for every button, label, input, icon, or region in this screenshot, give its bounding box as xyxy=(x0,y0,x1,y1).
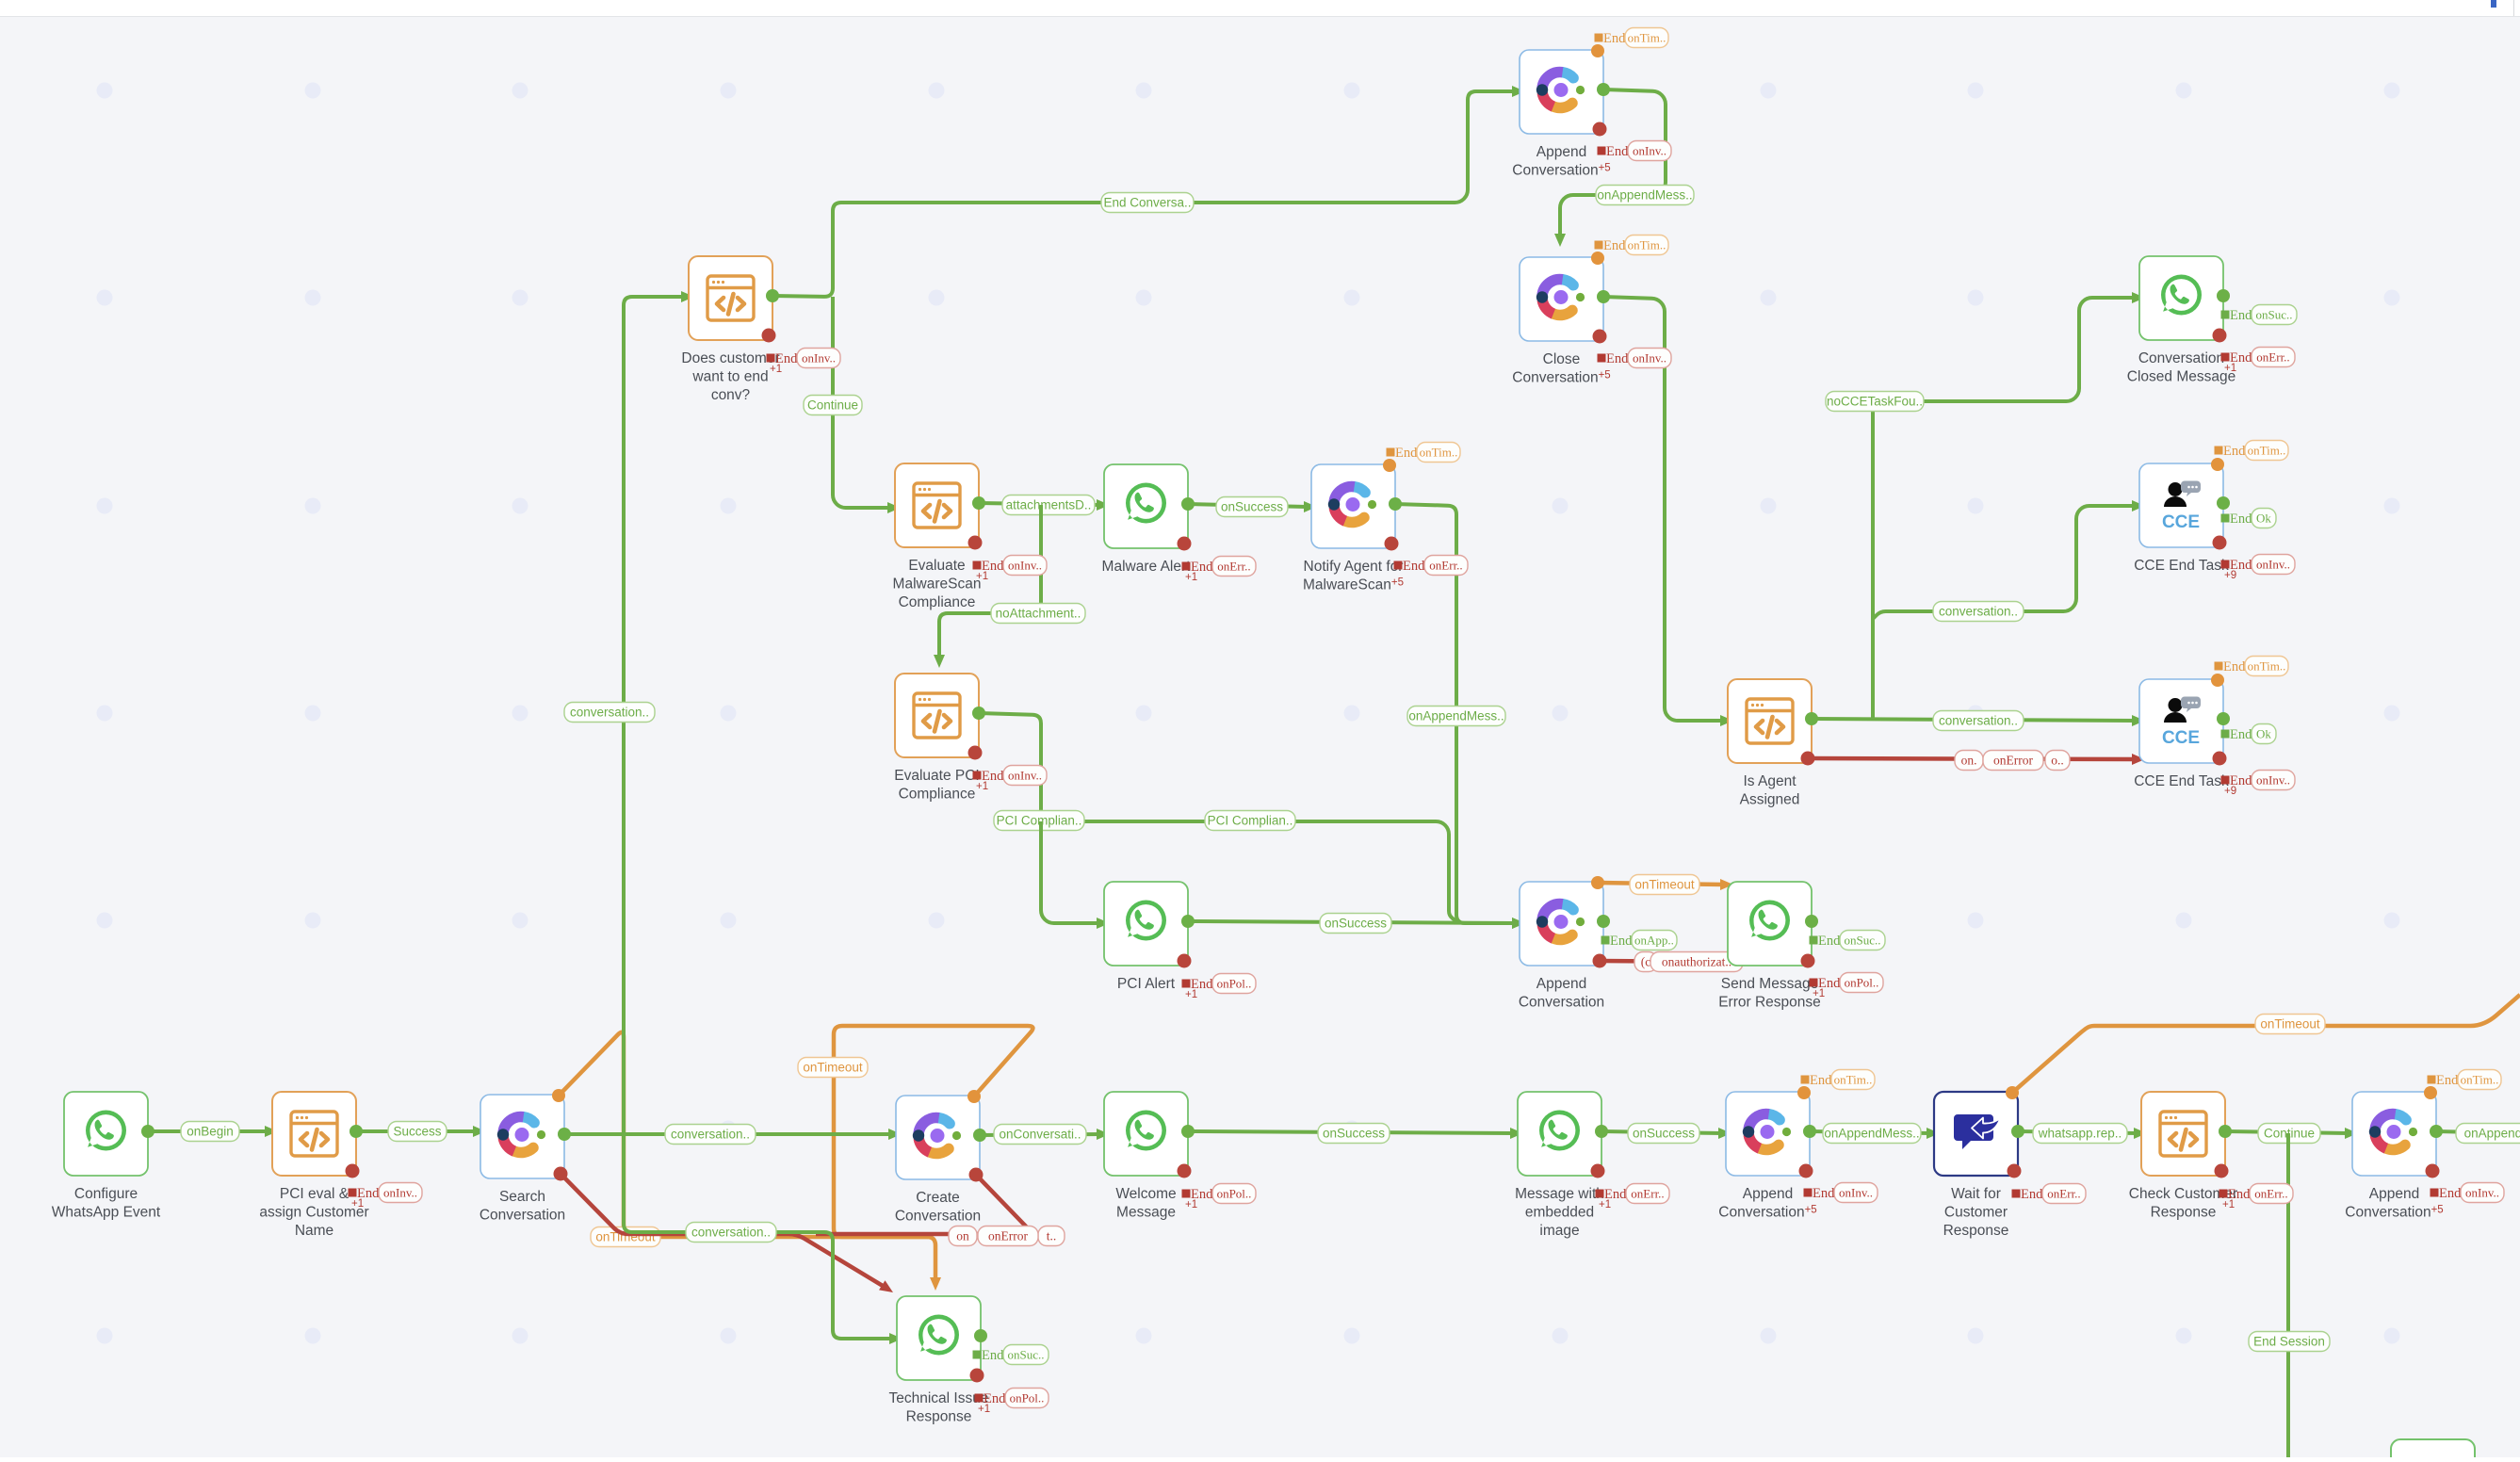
svg-text:Create: Create xyxy=(916,1190,960,1206)
node Wait for Customer Response xyxy=(1934,1092,2018,1176)
svg-text:onSuc..: onSuc.. xyxy=(2256,307,2293,321)
wire onAppendMessage out of last Append Conversation xyxy=(2436,1131,2520,1133)
svg-text:onInv..: onInv.. xyxy=(2256,772,2290,787)
wire onTimeout: Append Conversation to Send Message Error Response xyxy=(1598,883,1724,885)
label End onErr for Wait for Customer Response xyxy=(2012,1190,2021,1198)
label End onInv for Close Conversation xyxy=(1598,354,1606,363)
svg-text:onTim..: onTim.. xyxy=(2248,658,2286,673)
svg-text:+1: +1 xyxy=(976,781,988,792)
svg-text:conversation..: conversation.. xyxy=(671,1128,750,1142)
svg-text:Technical Issue: Technical Issue xyxy=(889,1390,989,1406)
node Append Conversation last xyxy=(2352,1092,2436,1176)
svg-text:PCI Alert: PCI Alert xyxy=(1117,976,1176,992)
svg-text:Message with: Message with xyxy=(1515,1186,1604,1202)
svg-text:Close: Close xyxy=(1543,351,1581,367)
svg-text:onSuc..: onSuc.. xyxy=(1845,933,1881,947)
svg-text:onAppendMess..: onAppendMess.. xyxy=(1824,1127,1919,1141)
node Create Conversation xyxy=(896,1096,980,1179)
svg-text:Is Agent: Is Agent xyxy=(1743,773,1797,789)
svg-text:Conversation+5: Conversation+5 xyxy=(1512,370,1610,386)
wire conversation: Search Conversation to Create Conversation xyxy=(564,1132,892,1136)
svg-text:End: End xyxy=(982,1348,1004,1363)
svg-text:onTim..: onTim.. xyxy=(1628,237,1666,252)
svg-text:onPol..: onPol.. xyxy=(1010,1390,1045,1405)
node PCI eval & assign Customer Name xyxy=(272,1092,356,1176)
label End onPol for Welcome Message xyxy=(1182,1190,1191,1198)
node Search Conversation xyxy=(480,1095,564,1178)
svg-text:onTim..: onTim.. xyxy=(1628,30,1666,44)
wire noCCETaskFound: Is Agent Assigned to Conversation Closed Message xyxy=(1873,298,2136,721)
svg-text:Ok: Ok xyxy=(2256,511,2271,525)
svg-text:End: End xyxy=(1813,1186,1835,1201)
wire onError: Search Conversation to Technical Issue Response xyxy=(561,1174,886,1288)
svg-text:conversation..: conversation.. xyxy=(691,1226,771,1240)
label End onErr for Notify Agent xyxy=(1394,561,1403,570)
svg-text:onInv..: onInv.. xyxy=(1633,143,1666,157)
svg-text:onInv..: onInv.. xyxy=(2465,1185,2499,1199)
wire onAppendMessage: Notify Agent for MalwareScan down to Append Conversation xyxy=(1395,504,1516,923)
wire onAppendMessage: Append Conversation to Wait for Customer Response xyxy=(1810,1131,1930,1133)
svg-text:+1: +1 xyxy=(1599,1199,1611,1210)
svg-text:End: End xyxy=(2223,659,2246,674)
svg-text:Search: Search xyxy=(499,1189,545,1205)
svg-text:conversation..: conversation.. xyxy=(1939,605,2018,619)
svg-text:Error Response: Error Response xyxy=(1718,995,1821,1011)
wire Success: PCI eval to Search Conversation xyxy=(356,1129,477,1133)
label End onErr for Check Customer Response xyxy=(2219,1190,2228,1198)
svg-text:onPol..: onPol.. xyxy=(1217,976,1252,990)
wire conversation: Search Conversation to Technical Issue Response xyxy=(624,1134,893,1339)
label End onInv for PCI eval xyxy=(349,1189,357,1197)
svg-text:conversation..: conversation.. xyxy=(570,706,649,720)
node Configure WhatsApp Event xyxy=(64,1092,148,1176)
label End onPol for Send Message Error Response xyxy=(1810,979,1818,987)
svg-text:onAppendM: onAppendM xyxy=(2464,1127,2520,1141)
label End Ok for CCE End Task top xyxy=(2221,514,2230,523)
wire onError: Is Agent Assigned to CCE End Task bottom xyxy=(1808,758,2136,759)
svg-text:Append: Append xyxy=(1536,976,1586,992)
svg-text:onAppendMess..: onAppendMess.. xyxy=(1597,188,1692,203)
label End onTim for Append Conversation top xyxy=(1595,34,1603,42)
label End onErr for Message with embedded image xyxy=(1596,1190,1604,1198)
svg-text:embedded: embedded xyxy=(1525,1205,1594,1221)
svg-text:Notify Agent for: Notify Agent for xyxy=(1304,559,1404,575)
svg-text:onErr..: onErr.. xyxy=(1631,1186,1664,1200)
svg-text:onErr..: onErr.. xyxy=(2254,1186,2287,1200)
svg-text:End: End xyxy=(1606,144,1629,159)
svg-text:Conversation+5: Conversation+5 xyxy=(2345,1205,2443,1221)
node Append Conversation bottom row xyxy=(1726,1092,1810,1176)
svg-text:End: End xyxy=(2230,727,2252,742)
label End Ok for CCE End Task bottom xyxy=(2221,730,2230,739)
wire onTimeout: Wait for Customer Response off right edge xyxy=(2012,995,2520,1093)
svg-text:onSuccess: onSuccess xyxy=(1323,1127,1385,1141)
svg-text:+1: +1 xyxy=(2224,363,2236,374)
node Is Agent Assigned xyxy=(1728,679,1812,763)
label End onErr for Conversation Closed Message xyxy=(2221,353,2230,362)
svg-text:onTimeout: onTimeout xyxy=(2260,1017,2320,1032)
label End onInv for Append Conversation top xyxy=(1598,147,1606,155)
node PCI Alert xyxy=(1104,882,1188,966)
svg-text:onSuc..: onSuc.. xyxy=(1008,1347,1045,1361)
svg-text:+1: +1 xyxy=(770,364,782,375)
svg-text:End: End xyxy=(1810,1073,1832,1088)
svg-text:Name: Name xyxy=(295,1223,333,1239)
svg-text:+1: +1 xyxy=(351,1198,364,1210)
svg-text:Response: Response xyxy=(2151,1205,2217,1221)
svg-text:onTim..: onTim.. xyxy=(2461,1072,2499,1086)
svg-text:onInv..: onInv.. xyxy=(2256,557,2290,571)
svg-text:onTim..: onTim.. xyxy=(2248,443,2286,457)
svg-text:+1: +1 xyxy=(1185,572,1197,583)
svg-text:onInv..: onInv.. xyxy=(383,1185,417,1199)
svg-text:onConversati..: onConversati.. xyxy=(999,1128,1081,1142)
label End onErr for Malware Alert xyxy=(1182,562,1191,571)
svg-text:PCI Complian..: PCI Complian.. xyxy=(1208,814,1293,828)
label End onTim for Notify Agent xyxy=(1387,448,1395,457)
svg-text:onInv..: onInv.. xyxy=(802,350,836,365)
svg-text:Evaluate: Evaluate xyxy=(908,558,965,574)
svg-text:noAttachment..: noAttachment.. xyxy=(996,607,1081,621)
node Evaluate PCI Compliance xyxy=(895,674,979,757)
node CCE End Task top xyxy=(2139,463,2223,547)
svg-text:Customer: Customer xyxy=(1944,1205,2008,1221)
svg-text:onSuccess: onSuccess xyxy=(1633,1127,1695,1141)
wire: Close Conversation to Is Agent Assigned xyxy=(1603,297,1724,721)
wire conversation: Is Agent Assigned to CCE End Task top xyxy=(1873,506,2136,619)
node Technical Issue Response xyxy=(897,1296,981,1380)
label End onTim for CCE End Task bottom xyxy=(2215,662,2223,671)
label End onInv for Evaluate MalwareScan xyxy=(973,561,982,570)
svg-text:attachmentsD..: attachmentsD.. xyxy=(1006,498,1092,512)
wire onSuccess: PCI Alert to Append Conversation xyxy=(1188,921,1516,923)
wire onSuccess: Malware Alert to Notify Agent for MalwareScan xyxy=(1188,504,1308,507)
svg-text:+9: +9 xyxy=(2224,786,2236,797)
svg-text:conversation..: conversation.. xyxy=(1939,714,2018,728)
svg-text:onError: onError xyxy=(1993,754,2033,768)
node Append Conversation top xyxy=(1520,50,1603,134)
svg-text:End Session: End Session xyxy=(2253,1335,2325,1349)
label End onPol for PCI Alert xyxy=(1182,980,1191,988)
wire onBegin: Configure WhatsApp Event to PCI eval xyxy=(148,1129,268,1133)
svg-text:+1: +1 xyxy=(2222,1199,2235,1210)
svg-text:onErr..: onErr.. xyxy=(1429,558,1462,572)
node Conversation Closed Message xyxy=(2139,256,2223,340)
svg-text:Conversation: Conversation xyxy=(895,1209,981,1225)
svg-text:Ok: Ok xyxy=(2256,726,2271,740)
node Check Customer Response xyxy=(2141,1092,2225,1176)
wire onSuccess: Welcome Message to Message with embedded image xyxy=(1188,1131,1514,1133)
svg-text:Malware Alert: Malware Alert xyxy=(1102,559,1192,575)
svg-text:noCCETaskFou..: noCCETaskFou.. xyxy=(1827,395,1923,409)
svg-text:Append: Append xyxy=(2369,1186,2419,1202)
svg-text:onTim..: onTim.. xyxy=(1834,1072,1873,1086)
svg-text:Wait for: Wait for xyxy=(1951,1186,2001,1202)
wire Continue: Check Customer Response to Append Conversation xyxy=(2225,1131,2349,1133)
svg-text:End: End xyxy=(1403,559,1425,574)
svg-text:onPol..: onPol.. xyxy=(1845,975,1879,989)
svg-text:Response: Response xyxy=(1943,1223,2009,1239)
label End onInv for Append Conversation last xyxy=(2431,1189,2439,1197)
label End onTim for Close Conversation xyxy=(1595,241,1603,250)
svg-text:Configure: Configure xyxy=(74,1186,138,1202)
svg-text:onTimeout: onTimeout xyxy=(803,1061,863,1075)
wire attachmentsDetected: Evaluate MalwareScan to Malware Alert xyxy=(979,503,1100,505)
wire Continue: Does customer to Evaluate MalwareScan Compliance xyxy=(833,297,891,508)
node Notify Agent for MalwareScan xyxy=(1311,464,1395,548)
node Append Conversation middle xyxy=(1520,882,1603,966)
svg-text:onTimeout: onTimeout xyxy=(1634,878,1695,892)
wire onSuccess: Message with embedded image to Append Conversation xyxy=(1601,1131,1722,1133)
svg-text:onInv..: onInv.. xyxy=(1633,350,1666,365)
wire onTimeout loop: Create Conversation to Technical Issue Response xyxy=(834,1026,1032,1237)
svg-text:onSuccess: onSuccess xyxy=(1325,917,1387,931)
svg-text:onPol..: onPol.. xyxy=(1217,1186,1252,1200)
svg-text:Success: Success xyxy=(393,1125,441,1139)
svg-text:+1: +1 xyxy=(1185,989,1197,1000)
svg-text:Closed Message: Closed Message xyxy=(2127,369,2235,385)
svg-text:Append: Append xyxy=(1536,144,1586,160)
wire End Conversation: Does customer to Append Conversation top xyxy=(772,91,1516,297)
svg-text:End Conversa..: End Conversa.. xyxy=(1103,196,1191,210)
wire conversation: Search Conversation up to Does customer want to end conv xyxy=(624,297,685,1134)
svg-text:image: image xyxy=(1539,1223,1579,1239)
node Send Message Error Response xyxy=(1728,882,1812,966)
wire onError: Create Conversation to Technical Issue Response xyxy=(816,1175,1032,1234)
svg-text:onErr..: onErr.. xyxy=(2256,349,2289,364)
label End onInv for Append Conversation bottom xyxy=(1804,1189,1813,1197)
svg-text:Continue: Continue xyxy=(807,398,858,413)
label End onTim for CCE End Task top xyxy=(2215,447,2223,455)
svg-text:Compliance: Compliance xyxy=(899,787,976,803)
svg-text:conv?: conv? xyxy=(711,387,751,403)
svg-text:on.: on. xyxy=(1961,754,1977,768)
svg-text:End: End xyxy=(1395,446,1418,461)
svg-text:Compliance: Compliance xyxy=(899,594,976,610)
svg-text:End: End xyxy=(2230,308,2252,323)
node Welcome Message xyxy=(1104,1092,1188,1176)
wire PCI Compliant: Evaluate PCI Compliance to Append Conversation xyxy=(979,713,1456,921)
label End onSuc for Technical Issue Response xyxy=(973,1351,982,1359)
svg-text:End: End xyxy=(1610,934,1633,949)
svg-text:t..: t.. xyxy=(1047,1229,1057,1243)
node Close Conversation xyxy=(1520,257,1603,341)
svg-text:End: End xyxy=(1818,934,1841,949)
svg-text:End: End xyxy=(2021,1187,2043,1202)
svg-text:+9: +9 xyxy=(2224,570,2236,581)
svg-text:+1: +1 xyxy=(1813,988,1825,999)
svg-text:want to end: want to end xyxy=(691,369,768,385)
svg-text:onInv..: onInv.. xyxy=(1839,1185,1873,1199)
svg-text:End: End xyxy=(2223,444,2246,459)
svg-text:onErr..: onErr.. xyxy=(1217,559,1250,573)
svg-text:Welcome: Welcome xyxy=(1115,1186,1176,1202)
svg-text:Evaluate PCI: Evaluate PCI xyxy=(894,768,979,784)
svg-text:onBegin: onBegin xyxy=(187,1125,234,1139)
svg-text:+1: +1 xyxy=(976,571,988,582)
svg-text:MalwareScan+5: MalwareScan+5 xyxy=(1303,577,1404,593)
svg-text:onTim..: onTim.. xyxy=(1420,445,1458,459)
svg-text:Conversation: Conversation xyxy=(480,1208,565,1224)
svg-text:o..: o.. xyxy=(2051,754,2064,768)
svg-text:onApp..: onApp.. xyxy=(1634,933,1674,947)
wire PCI Compliance failed: Evaluate PCI Compliance to PCI Alert xyxy=(1041,821,1100,923)
label End onInv for CCE End Task top xyxy=(2221,560,2230,569)
svg-text:MalwareScan: MalwareScan xyxy=(893,577,982,593)
wire whatsapp.reply: Wait for Customer Response to Check Customer Response xyxy=(2018,1131,2138,1133)
wire End Session down from Continue xyxy=(2286,1133,2290,1457)
svg-text:End: End xyxy=(1606,351,1629,366)
svg-text:End: End xyxy=(1603,31,1626,46)
wire conversation: Is Agent Assigned to CCE End Task bottom xyxy=(1812,719,2136,721)
svg-text:(c: (c xyxy=(1641,955,1651,969)
label End onApp for Append Conversation middle xyxy=(1601,936,1610,945)
label End onTim for Append Conversation last xyxy=(2428,1076,2436,1084)
svg-text:Append: Append xyxy=(1743,1186,1793,1202)
svg-text:PCI eval &: PCI eval & xyxy=(280,1186,350,1202)
svg-text:onauthorizat..: onauthorizat.. xyxy=(1662,955,1731,969)
svg-text:Conversation+5: Conversation+5 xyxy=(1512,163,1610,179)
svg-text:End: End xyxy=(2436,1073,2459,1088)
svg-text:Conversation+5: Conversation+5 xyxy=(1718,1205,1816,1221)
wire onauthorization error: Append Conversation to Send Message Error Response xyxy=(1600,961,1724,962)
svg-text:onInv..: onInv.. xyxy=(1008,558,1042,572)
svg-text:Does customer: Does customer xyxy=(681,350,779,366)
wire onAppendMessage: Append Conversation top to Close Conversation xyxy=(1560,89,1666,237)
svg-text:WhatsApp Event: WhatsApp Event xyxy=(52,1205,161,1221)
label End onInv for Does customer xyxy=(767,354,775,363)
svg-text:End: End xyxy=(1603,238,1626,253)
label End onSuc for Send Message Error Response xyxy=(1810,936,1818,945)
svg-text:+1: +1 xyxy=(1185,1199,1197,1210)
svg-text:onAppendMess..: onAppendMess.. xyxy=(1408,709,1504,723)
wire noAttachment: Evaluate MalwareScan to Evaluate PCI Compliance xyxy=(939,505,1041,658)
svg-text:whatsapp.rep..: whatsapp.rep.. xyxy=(2038,1127,2122,1141)
svg-text:End: End xyxy=(2439,1186,2462,1201)
svg-text:Response: Response xyxy=(906,1409,972,1425)
label End onInv for Evaluate PCI xyxy=(973,772,982,780)
svg-text:+1: +1 xyxy=(978,1404,990,1415)
node CCE End Task bottom xyxy=(2139,679,2223,763)
svg-text:Send Message: Send Message xyxy=(1721,976,1818,992)
wire onConversation: Create Conversation to Welcome Message xyxy=(980,1134,1100,1135)
label End onInv for CCE End Task bottom xyxy=(2221,776,2230,785)
node Evaluate MalwareScan Compliance xyxy=(895,463,979,547)
svg-text:Assigned: Assigned xyxy=(1740,792,1800,808)
svg-text:End: End xyxy=(2230,512,2252,527)
svg-text:CCE End Task: CCE End Task xyxy=(2134,558,2229,574)
svg-text:CCE End Task: CCE End Task xyxy=(2134,773,2229,789)
svg-text:Conversation: Conversation xyxy=(1519,995,1604,1011)
label End onTim for Append Conversation bottom xyxy=(1801,1076,1810,1084)
svg-text:on: on xyxy=(956,1229,969,1243)
svg-text:onErr..: onErr.. xyxy=(2047,1186,2080,1200)
node Message with embedded image xyxy=(1518,1092,1601,1176)
svg-text:onError: onError xyxy=(988,1229,1028,1243)
svg-text:Conversation: Conversation xyxy=(2138,350,2224,366)
wire onTimeout: Search Conversation to Technical Issue Response xyxy=(559,1032,935,1281)
svg-text:onInv..: onInv.. xyxy=(1008,768,1042,782)
node bottom right partial xyxy=(2391,1439,2475,1462)
label End onPol for Technical Issue Response xyxy=(975,1394,984,1403)
label End onSuc for Conversation Closed Message xyxy=(2221,311,2230,319)
node Does customer want to end conv? xyxy=(689,256,772,340)
node Malware Alert xyxy=(1104,464,1188,548)
svg-text:Message: Message xyxy=(1116,1205,1176,1221)
svg-text:onSuccess: onSuccess xyxy=(1221,500,1283,514)
